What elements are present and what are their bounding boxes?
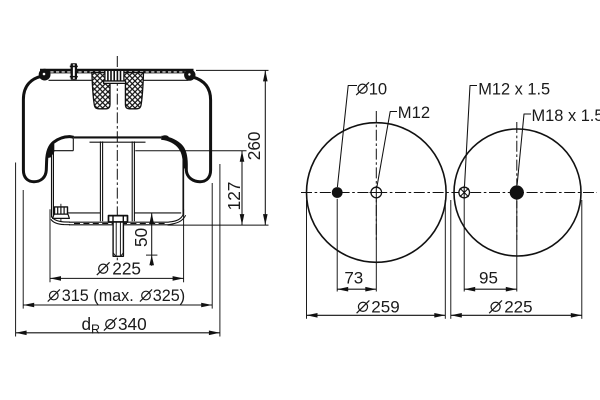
dim 127 line: [240, 151, 245, 225]
fastening bolt bottom left: [53, 204, 70, 222]
clamp wedge right: [161, 138, 184, 168]
dim 95 extensions: [463, 199, 465, 292]
rubber buffer (hatched): [91, 73, 143, 109]
svg-text:R: R: [91, 323, 100, 337]
dim 73 extensions: [336, 199, 338, 292]
bellows membrane left (wall + rolling lobe + clamp curve): [23, 77, 73, 182]
svg-text:225: 225: [504, 297, 532, 316]
hole M12 (cross circle): [370, 186, 384, 200]
piston bottom flange right S-curve: [168, 215, 184, 223]
dim 50 line: [146, 213, 157, 266]
left bead roll: [39, 69, 51, 81]
piston bottom flange band: [69, 221, 168, 223]
dim 260 extension top: [196, 69, 269, 71]
dim 315 line: [23, 303, 212, 308]
clamp wedge left: [47, 143, 54, 158]
bead plate bottom line right: [143, 79, 189, 81]
piston bottom flange left S-curve: [52, 217, 71, 223]
dim 225 left-view text: [97, 258, 141, 278]
dim 340 text: [82, 314, 147, 337]
central tube right wall: [131, 141, 133, 221]
svg-text:M12: M12: [398, 103, 430, 122]
leader d10: [337, 86, 357, 188]
svg-text:73: 73: [344, 269, 363, 288]
dim 259 line: [307, 313, 446, 318]
central tube left wall: [99, 141, 101, 221]
dim 260/127 extension bottom: [168, 224, 269, 226]
svg-text:d: d: [82, 314, 92, 334]
dim 315 extensions: [22, 190, 24, 309]
dim 259 text: [357, 297, 400, 316]
dim 225 right-view line: [451, 313, 582, 318]
stud M12 bottom: [113, 222, 123, 256]
hole M12x1.5 (diagonal cross circle): [459, 186, 470, 199]
svg-text:10: 10: [369, 79, 387, 98]
dim 260 line: [263, 70, 268, 225]
svg-text:M12 x 1.5: M12 x 1.5: [478, 80, 550, 98]
dim 73 line: [337, 287, 376, 292]
dim 259 extensions: [306, 200, 308, 319]
right bead roll: [184, 69, 195, 80]
svg-text:50: 50: [131, 228, 151, 247]
svg-text:127: 127: [224, 182, 244, 211]
piston upper plate lower edge: [90, 141, 146, 143]
piston top plateau: [74, 136, 162, 138]
leader M12: [377, 112, 397, 188]
hole M18x1.5 (filled): [510, 185, 524, 199]
dim 225 right-view text: [489, 297, 532, 316]
bead plate rivet ticks: [48, 71, 190, 73]
svg-text:315 (max.: 315 (max.: [62, 287, 134, 305]
stud nut boss: [109, 216, 128, 222]
circle 1 (bead plate plan): [307, 123, 447, 263]
svg-text:260: 260: [244, 132, 264, 161]
svg-text:340: 340: [118, 314, 147, 334]
vertical centerline circle 1: [375, 111, 377, 240]
svg-text:M18 x 1.5: M18 x 1.5: [532, 107, 600, 125]
svg-text:225: 225: [112, 258, 141, 278]
label d10: [356, 79, 387, 98]
centerline axis: [116, 56, 118, 262]
dim 340 extensions: [15, 163, 17, 337]
blow-off bolt on plate: [70, 63, 78, 80]
piston wall right (double): [182, 153, 184, 215]
svg-text:259: 259: [371, 297, 399, 316]
air fitting M12 port: [104, 70, 126, 83]
leader M18x1.5: [517, 114, 531, 185]
circle 2 (piston plan): [454, 129, 581, 256]
dim 315 text: [48, 287, 185, 305]
bellows membrane right (wall + rolling lobe + clamp curve): [161, 77, 210, 182]
svg-text:95: 95: [479, 269, 498, 288]
piston inner corner left: [49, 150, 73, 152]
horizontal centerline: [301, 192, 597, 194]
leader M12x1.5: [465, 86, 478, 187]
bead plate top line: [40, 69, 194, 72]
dim 225 left-view extensions: [49, 209, 51, 282]
bead plate bottom line left: [49, 79, 92, 81]
piston inner shelf line right + 127 extension: [135, 150, 246, 152]
dim 225 right-view extensions: [450, 200, 452, 319]
svg-text:325): 325): [153, 287, 185, 305]
piston interior bottom shelf: [53, 212, 100, 214]
dim 340 line: [16, 331, 220, 336]
hole d10 (filled): [332, 187, 343, 198]
piston wall left (double): [51, 152, 53, 218]
dim 225 left-view line: [50, 276, 184, 281]
vertical centerline circle 2: [516, 122, 518, 240]
dim 95 line: [464, 287, 517, 292]
